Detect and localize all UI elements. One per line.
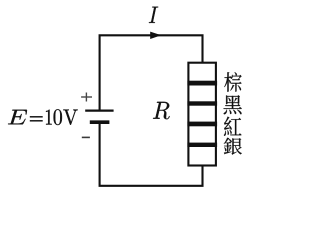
color label brown 棕 (224, 72, 241, 92)
equals sign (30, 117, 43, 121)
resistor body (188, 63, 216, 166)
value 10V (46, 109, 78, 125)
color label black 黑 (224, 95, 242, 114)
label R (resistor) (153, 102, 170, 119)
band 1 brown (187, 81, 217, 86)
plus sign at battery positive terminal (81, 93, 92, 102)
battery E: long positive plate (85, 109, 113, 111)
color label red 紅 (224, 117, 242, 136)
label I (current) (149, 7, 158, 23)
wire: left branch up from battery + plate, top wire, right branch down to resistor (100, 35, 203, 110)
label E (EMF) (8, 110, 27, 125)
wire: left branch down from battery - plate, bottom wire, right branch up to resistor (100, 122, 203, 186)
color label silver 銀 (224, 138, 242, 155)
battery E: short negative plate (90, 120, 110, 124)
band 3 red (187, 122, 217, 127)
band 4 silver (187, 143, 217, 147)
band 2 black (187, 101, 217, 105)
current arrow on top wire (150, 32, 161, 39)
minus sign at battery negative terminal (82, 136, 90, 138)
